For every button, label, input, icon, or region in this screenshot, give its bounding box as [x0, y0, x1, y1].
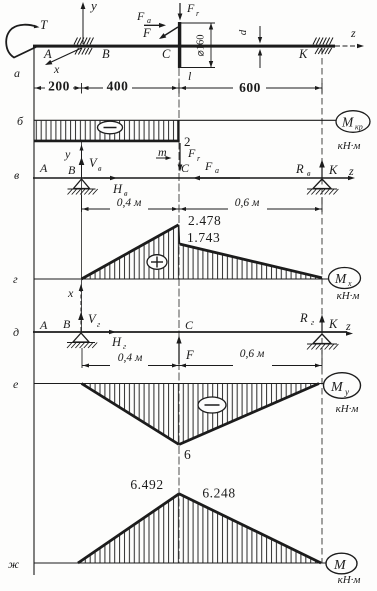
diameter 160 dimension: [181, 22, 215, 24]
dimension line row d: [81, 348, 83, 368]
My zero line: [34, 383, 323, 385]
svg-text:K: K: [328, 317, 338, 331]
svg-text:6.492: 6.492: [130, 477, 163, 492]
svg-text:200: 200: [48, 79, 70, 94]
dimension line row v: [81, 195, 83, 212]
svg-text:z: z: [345, 319, 351, 333]
svg-text:г: г: [311, 318, 314, 327]
svg-text:B: B: [102, 47, 110, 61]
Mx diagram drop at C: [178, 225, 181, 244]
z axis dashed extension row a: [335, 45, 357, 47]
svg-text:H: H: [112, 182, 123, 196]
svg-text:F: F: [187, 146, 196, 160]
reaction Hr arrow: [83, 331, 110, 333]
svg-text:0,4 м: 0,4 м: [118, 352, 143, 364]
svg-text:x: x: [53, 62, 60, 76]
M diagram boundary left: [78, 494, 179, 563]
svg-text:М: М: [333, 558, 347, 573]
x axis row a: [48, 48, 82, 64]
y axis row v: [81, 147, 83, 178]
svg-text:6: 6: [184, 447, 191, 462]
svg-text:H: H: [111, 335, 122, 349]
svg-text:х: х: [347, 279, 352, 288]
svg-text:y: y: [64, 147, 71, 161]
svg-text:0,4 м: 0,4 м: [117, 197, 142, 209]
svg-text:F: F: [185, 348, 194, 362]
M zero line: [34, 562, 326, 564]
svg-text:T: T: [40, 17, 48, 32]
guide line at C: [178, 68, 180, 563]
svg-text:y: y: [89, 0, 97, 13]
reaction Vr arrow: [78, 312, 84, 320]
svg-text:B: B: [68, 163, 76, 177]
svg-text:A: A: [39, 318, 48, 332]
svg-text:C: C: [181, 161, 190, 175]
svg-text:K: K: [298, 47, 308, 61]
guide line at B: [81, 142, 83, 332]
force Fr row v: [179, 143, 181, 167]
minus sign My: [198, 397, 226, 413]
pin support K row d: [313, 334, 331, 344]
y axis row a: [82, 6, 84, 44]
svg-text:R: R: [295, 162, 304, 176]
svg-text:a: a: [215, 166, 219, 175]
svg-text:у: у: [344, 387, 349, 397]
svg-text:в: в: [14, 168, 19, 182]
svg-text:кр: кр: [355, 123, 363, 132]
M diagram boundary right: [179, 494, 321, 563]
plus sign Mx: [147, 255, 167, 270]
M diagram hatched area: [78, 494, 321, 563]
svg-text:600: 600: [239, 80, 261, 95]
force F row a: [163, 27, 178, 37]
Mx ellipse label: [329, 268, 361, 289]
svg-text:0,6 м: 0,6 м: [240, 348, 265, 360]
guide line at K: [321, 48, 323, 563]
svg-text:в: в: [307, 169, 311, 178]
My diagram boundary left: [82, 384, 180, 445]
force Fr row a: [179, 3, 181, 16]
svg-text:A: A: [39, 161, 48, 175]
My ellipse label: [324, 373, 361, 399]
Mx diagram hatched area: [82, 225, 322, 279]
pin support B row v: [74, 179, 90, 189]
svg-text:B: B: [63, 317, 71, 331]
svg-text:М: М: [334, 271, 347, 286]
svg-text:6.248: 6.248: [202, 486, 235, 501]
svg-text:⌀160: ⌀160: [196, 34, 207, 56]
Mx diagram boundary right: [180, 244, 323, 278]
Mx diagram boundary left: [82, 225, 179, 279]
svg-text:кН·м: кН·м: [336, 403, 359, 415]
svg-text:кН·м: кН·м: [337, 290, 360, 302]
Mx zero line: [34, 278, 329, 280]
Mkr ellipse label: [336, 111, 370, 133]
bearing support K (hatching): [313, 38, 317, 45]
torque diagram zero line: [34, 119, 336, 121]
svg-text:М: М: [330, 380, 344, 395]
svg-text:кН·м: кН·м: [338, 574, 361, 586]
shaft beam: [33, 45, 335, 48]
svg-text:K: K: [328, 163, 338, 177]
gear disc at C: [178, 22, 181, 68]
svg-text:М: М: [341, 115, 354, 130]
svg-text:F: F: [204, 159, 213, 173]
svg-text:C: C: [185, 318, 194, 332]
svg-text:0,6 м: 0,6 м: [235, 197, 260, 209]
svg-text:б: б: [17, 114, 24, 128]
minus sign torque diagram: [98, 121, 123, 134]
left border / guide line at A: [33, 46, 35, 575]
svg-text:C: C: [162, 47, 171, 61]
beam row d: [33, 331, 347, 333]
svg-text:R: R: [299, 311, 308, 325]
svg-text:A: A: [43, 47, 52, 61]
svg-text:г: г: [13, 272, 18, 286]
svg-text:1.743: 1.743: [187, 230, 220, 245]
svg-text:F: F: [136, 9, 145, 23]
reaction HB arrow: [84, 177, 113, 179]
svg-text:2.478: 2.478: [188, 213, 221, 228]
torque diagram hatched area: [35, 121, 179, 141]
force F row d: [178, 340, 180, 364]
shaft diameter d dimension: [237, 29, 249, 35]
svg-text:z: z: [348, 164, 354, 178]
svg-text:в: в: [98, 164, 102, 173]
torque diagram thick boundary: [34, 140, 180, 143]
beam row v: [33, 177, 349, 179]
svg-text:400: 400: [107, 79, 129, 94]
svg-text:е: е: [13, 377, 19, 391]
reaction Rr arrow: [321, 319, 323, 332]
svg-text:кН·м: кН·м: [338, 140, 361, 152]
svg-text:д: д: [13, 325, 19, 339]
reaction VB arrow: [79, 157, 85, 165]
svg-text:z: z: [350, 26, 356, 40]
x axis row d: [80, 288, 82, 332]
reaction RB arrow: [321, 164, 323, 178]
svg-text:x: x: [67, 286, 74, 300]
svg-text:F: F: [142, 26, 151, 40]
svg-text:ж: ж: [8, 557, 19, 571]
pin support K row v: [313, 179, 331, 189]
svg-text:F: F: [186, 1, 195, 15]
svg-text:г: г: [97, 320, 100, 329]
svg-text:а: а: [14, 66, 20, 80]
svg-text:г: г: [123, 342, 126, 351]
pin support B row d: [73, 333, 89, 342]
M ellipse label: [326, 553, 357, 574]
torque arrow T: [6, 25, 37, 58]
svg-text:a: a: [147, 16, 151, 25]
svg-text:d: d: [237, 29, 249, 35]
force Fa row a: [144, 24, 161, 26]
dimension line row a: [33, 83, 35, 94]
My diagram hatched area: [82, 384, 320, 445]
My diagram boundary right: [179, 384, 319, 445]
force Fa row v: [198, 177, 240, 179]
bearing support B (hatching): [74, 38, 78, 45]
